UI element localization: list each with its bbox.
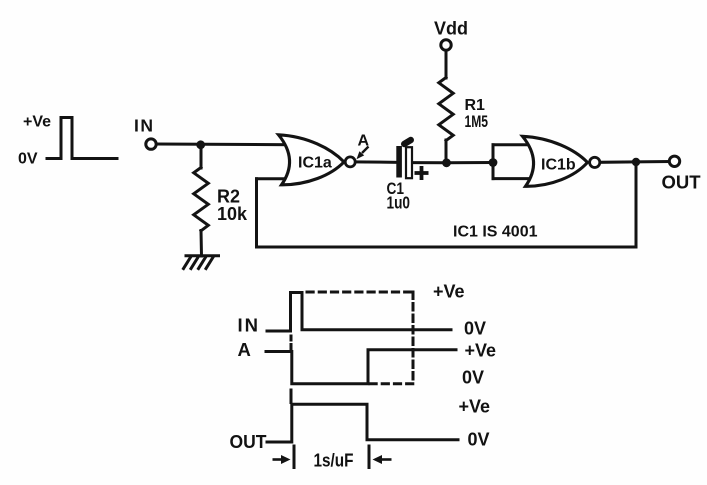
svg-text:+Ve: +Ve [433,282,465,302]
svg-text:IN: IN [134,116,155,136]
terminal Vdd [441,40,451,50]
output bubble IC1a [345,157,355,167]
waveform IN [267,293,451,332]
wire R1 to node [445,140,448,163]
wire IC1b output to OUT [599,160,670,164]
svg-text:1M5: 1M5 [465,113,489,131]
wire Vdd to R1 [445,50,448,78]
node A arrow [357,147,369,160]
svg-text:+Ve: +Ve [465,341,497,361]
svg-text:1u0: 1u0 [387,193,411,213]
arrow left [273,455,291,464]
wire IC1a output to C1 [353,160,397,163]
junction node (IN/R2) [196,140,205,149]
wire IN to IC1a input [156,143,292,147]
svg-text:10k: 10k [217,204,248,224]
svg-text:IC1b: IC1b [541,157,576,174]
svg-text:IC1 IS 4001: IC1 IS 4001 [453,224,538,241]
svg-text:Vdd: Vdd [434,19,468,39]
capacitor C1 [396,140,428,180]
svg-text:IC1a: IC1a [298,155,332,172]
node IC1b input junction [489,158,498,167]
tick mark right [368,446,371,468]
svg-text:R1: R1 [465,97,486,114]
svg-text:IN: IN [238,315,261,336]
node R1/C1/IC1b junction [442,158,451,167]
svg-text:OUT: OUT [662,172,702,193]
wire IC1b top input [493,143,532,146]
arrow right [373,455,392,464]
wire IC1a lower input [257,177,293,180]
resistor R2 [194,168,209,231]
NOR gate IC1a [279,135,345,185]
waveform OUT [267,404,458,442]
terminal OUT [669,156,679,166]
wire node to IC1b input [447,161,494,164]
feedback wire OUT to IC1a [257,162,637,247]
dashed falling edge (IN/A) [412,292,415,381]
wire C1 to node [412,161,447,164]
output bubble IC1b [590,157,600,167]
tick mark left [293,446,296,468]
wire junction to R2 [200,145,203,168]
wire R2 to ground [200,231,204,257]
dashed A low extension [370,382,414,385]
svg-text:0V: 0V [462,368,484,388]
svg-text:0V: 0V [464,319,486,339]
input pulse waveform [47,118,117,159]
dash-dot trigger line [290,336,293,350]
terminal IN [146,139,156,149]
svg-text:OUT: OUT [230,431,268,452]
dashed IN high extension [307,291,413,294]
svg-text:1s/uF: 1s/uF [314,451,354,471]
NOR gate IC1b [523,136,588,186]
IC1b input tie bar [492,145,495,179]
wire IC1b bottom input [493,177,533,180]
svg-text:0V: 0V [468,430,490,450]
svg-text:A: A [238,339,251,360]
svg-text:0V: 0V [18,151,38,168]
svg-text:+Ve: +Ve [459,397,491,417]
waveform A [266,350,456,384]
junction OUT/feedback [632,158,640,166]
ground [184,256,219,269]
svg-text:+Ve: +Ve [23,114,51,131]
resistor R1 [439,78,453,141]
